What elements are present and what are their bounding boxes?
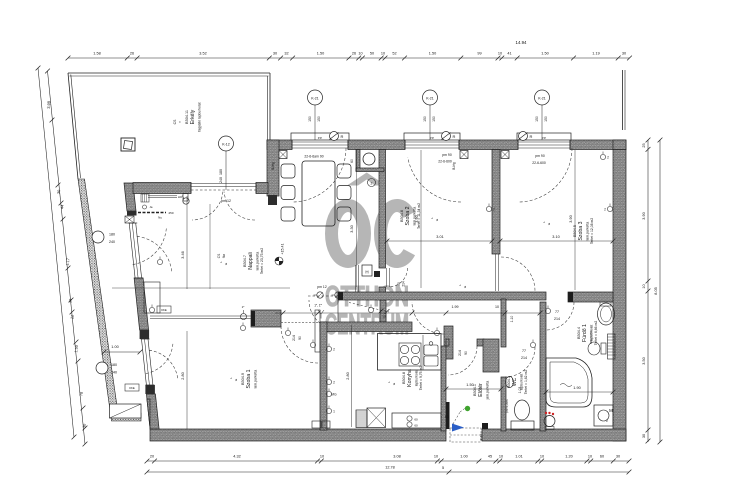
svg-text:3.10: 3.10 <box>552 235 559 239</box>
svg-text:250: 250 <box>168 211 173 215</box>
svg-text:P.P.: P.P. <box>542 136 547 140</box>
svg-text:fagyálló lapburkolat: fagyálló lapburkolat <box>198 102 202 131</box>
svg-text:150: 150 <box>535 116 539 122</box>
svg-text:KKE: KKE <box>161 308 167 312</box>
svg-text:L1: L1 <box>445 415 449 419</box>
svg-text:K-21: K-21 <box>538 96 546 100</box>
svg-text:3.98: 3.98 <box>46 100 52 109</box>
svg-text:pm 90: pm 90 <box>442 153 452 157</box>
svg-text:Erkély: Erkély <box>190 109 196 124</box>
svg-text:CS: CS <box>173 119 177 124</box>
svg-text:2: 2 <box>371 181 373 185</box>
svg-text:22: 22 <box>70 315 74 320</box>
svg-text:Terlet = 1,62 m2: Terlet = 1,62 m2 <box>524 370 528 395</box>
svg-text:K-21: K-21 <box>311 96 319 100</box>
svg-text:pm 90: pm 90 <box>535 154 545 158</box>
svg-text:10: 10 <box>540 455 544 459</box>
svg-text:30: 30 <box>616 455 620 459</box>
svg-text:4.32: 4.32 <box>233 455 240 459</box>
svg-text:3.52: 3.52 <box>199 52 206 56</box>
svg-text:2: 2 <box>493 208 495 212</box>
svg-text:Fürdő 1: Fürdő 1 <box>582 324 588 342</box>
svg-text:214: 214 <box>458 350 462 356</box>
svg-text:MG: MG <box>331 393 337 397</box>
svg-text:214: 214 <box>521 356 527 360</box>
svg-text:10: 10 <box>588 455 592 459</box>
svg-text:KKE: KKE <box>129 386 135 390</box>
svg-text:R: R <box>530 134 533 139</box>
svg-text:90: 90 <box>298 336 302 340</box>
svg-text:41: 41 <box>507 52 511 56</box>
svg-text:Szoba 3: Szoba 3 <box>578 221 584 240</box>
svg-text:44: 44 <box>60 205 64 210</box>
svg-text:2: 2 <box>604 208 606 212</box>
svg-text:52: 52 <box>392 52 396 56</box>
svg-text:3.90: 3.90 <box>569 215 573 222</box>
svg-text:240: 240 <box>111 371 117 375</box>
svg-text:214: 214 <box>554 317 560 321</box>
svg-text:3.90: 3.90 <box>415 215 419 222</box>
svg-text:78: 78 <box>79 392 83 397</box>
svg-text:1″, 1‴: 1″, 1‴ <box>314 304 322 308</box>
svg-text:R: R <box>453 134 456 139</box>
svg-text:1.00: 1.00 <box>111 345 118 349</box>
svg-text:8.05: 8.05 <box>654 287 658 294</box>
svg-text:B504.11: B504.11 <box>185 110 189 124</box>
svg-text:2.80: 2.80 <box>181 372 185 379</box>
svg-text:P.P.: P.P. <box>430 136 435 140</box>
svg-text:26: 26 <box>352 52 356 56</box>
svg-text:lam.parketta: lam.parketta <box>254 370 258 389</box>
svg-text:1: 1 <box>333 410 335 414</box>
svg-text:H: H <box>365 270 368 275</box>
svg-text:50: 50 <box>370 52 374 56</box>
svg-text:10: 10 <box>498 52 502 56</box>
svg-text:1.50: 1.50 <box>541 52 548 56</box>
svg-text:2: 2 <box>333 348 335 352</box>
svg-text:3.08: 3.08 <box>393 455 400 459</box>
svg-text:1.03: 1.03 <box>518 387 522 394</box>
svg-text:B504.8: B504.8 <box>402 372 406 384</box>
svg-text:150: 150 <box>308 116 312 122</box>
svg-text:Terlet = 23,73 m2: Terlet = 23,73 m2 <box>260 248 264 274</box>
svg-text:3.46: 3.46 <box>181 251 185 258</box>
svg-text:+15,41: +15,41 <box>281 243 285 254</box>
svg-text:60: 60 <box>350 159 354 163</box>
svg-text:10: 10 <box>495 305 499 309</box>
svg-text:2.80: 2.80 <box>346 372 350 379</box>
svg-text:1.10: 1.10 <box>510 316 514 323</box>
svg-text:1.50: 1.50 <box>466 383 473 387</box>
svg-text:180: 180 <box>219 169 223 175</box>
svg-text:10: 10 <box>320 455 324 459</box>
svg-text:60: 60 <box>414 424 418 428</box>
svg-text:B504.3: B504.3 <box>507 376 511 388</box>
svg-text:90: 90 <box>397 282 401 286</box>
svg-text:10: 10 <box>434 455 438 459</box>
svg-text:12.78: 12.78 <box>385 466 395 470</box>
svg-text:60: 60 <box>600 455 604 459</box>
svg-text:25: 25 <box>642 143 646 147</box>
svg-text:10: 10 <box>68 299 72 304</box>
svg-text:10: 10 <box>381 52 385 56</box>
svg-text:1.20: 1.20 <box>565 455 572 459</box>
svg-text:30: 30 <box>82 424 86 429</box>
svg-text:CS: CS <box>217 254 221 258</box>
svg-text:B504.4: B504.4 <box>577 327 581 339</box>
svg-text:10: 10 <box>499 455 503 459</box>
svg-text:214: 214 <box>292 335 296 341</box>
svg-text:30: 30 <box>622 52 626 56</box>
svg-text:22-6-6am 90: 22-6-6am 90 <box>304 155 323 159</box>
svg-text:lapburkolat: lapburkolat <box>415 370 419 387</box>
svg-text:3.50: 3.50 <box>642 357 646 364</box>
svg-text:Nappali: Nappali <box>248 252 254 270</box>
svg-text:3.30: 3.30 <box>350 225 354 232</box>
svg-text:1.01: 1.01 <box>515 455 522 459</box>
svg-text:fbz: fbz <box>222 253 226 258</box>
svg-text:99: 99 <box>477 52 481 56</box>
svg-text:26: 26 <box>130 52 134 56</box>
svg-text:3.01: 3.01 <box>436 235 443 239</box>
svg-text:Terlet = 6,66 m2: Terlet = 6,66 m2 <box>594 321 598 346</box>
svg-text:1.00: 1.00 <box>460 455 467 459</box>
svg-text:3.90: 3.90 <box>642 212 646 219</box>
svg-text:5: 5 <box>442 466 444 470</box>
svg-text:2x12: 2x12 <box>479 433 483 440</box>
svg-text:22-6-600: 22-6-600 <box>438 160 452 164</box>
svg-text:77: 77 <box>555 310 559 314</box>
svg-text:1.58: 1.58 <box>93 52 100 56</box>
svg-text:150: 150 <box>317 116 321 122</box>
svg-text:B504.7: B504.7 <box>243 255 247 267</box>
svg-text:10: 10 <box>358 52 362 56</box>
svg-text:lam.parketta: lam.parketta <box>256 252 260 271</box>
svg-text:30: 30 <box>642 434 646 438</box>
svg-text:Ny: Ny <box>158 216 162 220</box>
svg-text:Szoba 2: Szoba 2 <box>405 206 411 225</box>
svg-text:45: 45 <box>488 455 492 459</box>
svg-text:1.50: 1.50 <box>429 52 436 56</box>
svg-text:2: 2 <box>607 156 609 160</box>
svg-text:R: R <box>341 134 344 139</box>
svg-text:Előtér: Előtér <box>478 383 484 397</box>
svg-text:pm 12: pm 12 <box>221 199 231 203</box>
svg-text:B504.9: B504.9 <box>241 373 245 385</box>
svg-text:lam.parketta: lam.parketta <box>586 222 590 241</box>
svg-text:1.19: 1.19 <box>592 52 599 56</box>
svg-text:jam.parketta: jam.parketta <box>486 381 490 401</box>
svg-text:180: 180 <box>111 363 117 367</box>
svg-text:B504.6: B504.6 <box>400 210 404 222</box>
svg-text:1.50: 1.50 <box>74 345 79 353</box>
svg-text:Terlet = 12,08 m2: Terlet = 12,08 m2 <box>590 218 594 244</box>
svg-text:pm 12: pm 12 <box>317 285 327 289</box>
svg-text:B-lég: B-lég <box>271 162 275 170</box>
svg-text:MG=1,25m: MG=1,25m <box>589 329 593 344</box>
svg-text:180: 180 <box>109 233 115 237</box>
svg-text:150: 150 <box>432 116 436 122</box>
svg-text:M: M <box>609 408 613 413</box>
svg-text:214: 214 <box>402 281 406 287</box>
svg-text:30: 30 <box>273 52 277 56</box>
svg-text:240: 240 <box>219 177 223 183</box>
svg-text:150: 150 <box>544 116 548 122</box>
svg-text:Konyha: Konyha <box>407 369 413 387</box>
svg-text:32: 32 <box>284 52 288 56</box>
svg-text:pm=1,20m: pm=1,20m <box>505 399 509 413</box>
svg-text:90: 90 <box>464 351 468 355</box>
svg-text:14.94: 14.94 <box>516 40 528 45</box>
svg-text:Szoba 1: Szoba 1 <box>246 369 252 388</box>
svg-text:1.99: 1.99 <box>452 305 459 309</box>
svg-text:Ja: Ja <box>150 205 153 209</box>
svg-text:10: 10 <box>642 284 646 288</box>
svg-text:×: × <box>178 121 182 123</box>
svg-text:22-6-600: 22-6-600 <box>532 161 546 165</box>
svg-text:K-12: K-12 <box>222 142 230 146</box>
svg-text:K-21: K-21 <box>426 96 434 100</box>
svg-text:1.50: 1.50 <box>317 52 324 56</box>
svg-text:240: 240 <box>109 240 115 244</box>
svg-text:77: 77 <box>522 349 526 353</box>
svg-text:1.17: 1.17 <box>66 258 71 266</box>
svg-text:150: 150 <box>423 116 427 122</box>
svg-text:P.P.: P.P. <box>318 136 323 140</box>
svg-text:Terlet = 9,75 m2: Terlet = 9,75 m2 <box>419 366 423 391</box>
svg-text:30: 30 <box>57 190 61 195</box>
svg-text:10: 10 <box>382 315 386 319</box>
svg-text:20: 20 <box>150 455 154 459</box>
svg-text:60: 60 <box>414 418 418 422</box>
svg-text:B-lég: B-lég <box>452 162 456 170</box>
svg-text:2: 2 <box>333 381 335 385</box>
svg-text:1.90: 1.90 <box>573 386 580 390</box>
